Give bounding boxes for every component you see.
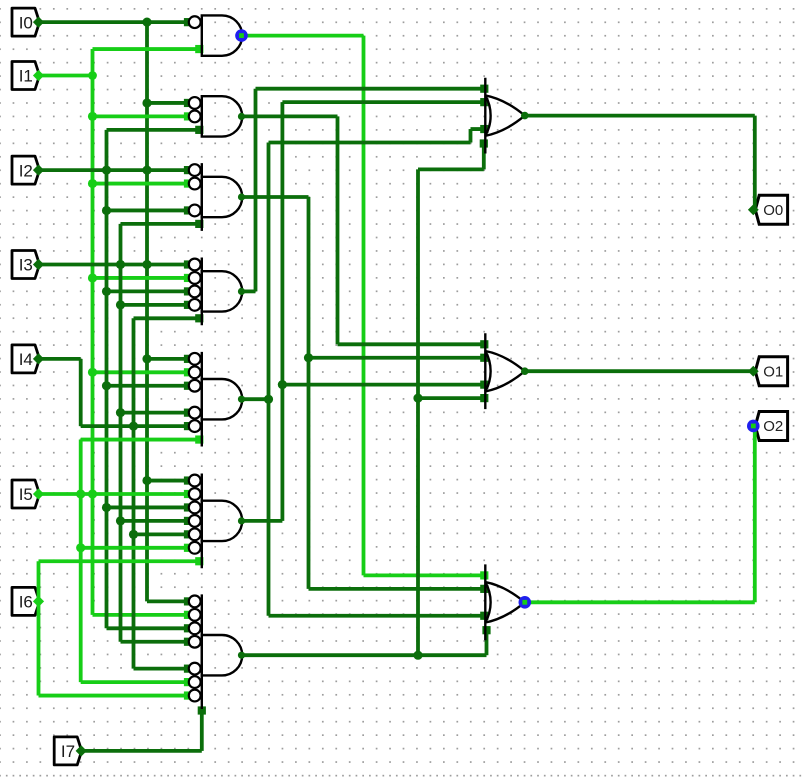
AND gate G4: [202, 258, 242, 326]
wire OR2 output to O1: [525, 369, 754, 373]
output pin O1: [755, 357, 787, 386]
junction G7 output: [413, 651, 422, 660]
inverter bubble G1 input: [189, 16, 201, 28]
wire I2 branch to gate4: [107, 289, 189, 293]
G2 output dot: [238, 113, 245, 120]
wire G4 output horizontal: [242, 289, 256, 293]
wire I2 branch to gate5: [107, 384, 189, 388]
svg-text:I1: I1: [19, 67, 33, 86]
wire G6 to OR2 input3: [282, 383, 487, 387]
wire I5 vertical bus: [79, 440, 83, 683]
wire I6 to gate7 seventh input: [39, 694, 189, 698]
pad: [184, 503, 192, 511]
wire I2 pin to gate3 inverted input: [39, 168, 189, 172]
wire I1 branch to gate3: [93, 182, 189, 186]
wire I3 branch to gate7: [121, 640, 189, 644]
junction I2 bus / pin wire: [102, 166, 111, 175]
inverter bubble G4 input: [189, 286, 201, 298]
wire G2 to OR2 input1: [338, 342, 488, 346]
junction G3 to OR2: [304, 353, 313, 362]
wire I0 pin to gate1 inverted input: [39, 20, 189, 24]
pin I0 connection point: [33, 17, 44, 28]
pin I1 connection point: [33, 70, 44, 81]
inverter bubble G7 input: [189, 636, 201, 648]
junction I3 gate4 branch: [116, 300, 125, 309]
pad: [184, 18, 192, 26]
junction I1 bus at I5 row: [88, 489, 97, 498]
wire I4 to gate5 fifth input: [81, 424, 188, 428]
pad: [184, 624, 192, 632]
input pin I2: [12, 156, 40, 184]
pad: [184, 301, 192, 309]
inverter bubble G5 input: [189, 420, 201, 432]
pad: [480, 571, 488, 579]
wire G5 output horizontal: [242, 397, 269, 401]
junction I2 gate4 branch: [102, 287, 111, 296]
pin I5 connection point: [33, 488, 44, 499]
wire I4 branch to gate6: [134, 532, 189, 536]
pad: [195, 126, 203, 134]
wire I1 pin to bus: [39, 74, 93, 78]
pad: [184, 490, 192, 498]
wire G5 to OR1 input3: [471, 127, 488, 131]
output pin O2: [755, 411, 787, 440]
junction I3 gate6 branch: [116, 516, 125, 525]
pad: [480, 381, 488, 389]
pad: [195, 314, 203, 322]
junction I0 gate6 branch: [142, 476, 151, 485]
pad: [184, 611, 192, 619]
pin I3 connection point: [33, 259, 44, 270]
wire I1 branch to gate1 plain input: [93, 47, 202, 51]
wire G1 to OR3 input1: [364, 574, 488, 578]
wire I5 pin to gate6 inverted input: [39, 492, 189, 496]
pin O0 connection point: [748, 204, 759, 215]
G7 output dot: [238, 652, 245, 659]
junction I2 gate6 branch: [102, 503, 111, 512]
input pin I1: [12, 62, 40, 90]
junction I0 bus / pin wire: [142, 18, 151, 27]
svg-text:I7: I7: [61, 742, 75, 761]
wire G5 jog up: [469, 129, 473, 142]
junction I5 bus / pin wire: [76, 489, 85, 498]
input pin I6: [12, 587, 40, 615]
svg-text:I2: I2: [19, 161, 33, 180]
wire I2 branch to gate6: [107, 506, 189, 510]
wire I0 branch to gate2: [147, 101, 188, 105]
junction I0 bus at I2 row: [142, 166, 151, 175]
wire I6 vertical: [37, 561, 41, 695]
pad: [184, 691, 192, 699]
inverter bubble G5 input: [189, 380, 201, 392]
inverter bubble G7 input: [189, 596, 201, 608]
wire I2 branch to gate7: [107, 626, 189, 630]
wire I3 vertical bus: [119, 224, 123, 642]
pad: [184, 112, 192, 120]
wire I0 branch to gate5: [147, 357, 188, 361]
wire OR1 output vertical: [753, 116, 757, 210]
OR gate U2 (middle): [485, 333, 525, 409]
inverter bubble G3 input: [189, 164, 201, 176]
inverter bubble G7 input: [189, 622, 201, 634]
inverter bubble G4 input: [189, 299, 201, 311]
G6 output dot: [238, 517, 245, 524]
pad: [482, 626, 490, 634]
inverter bubble G7 input: [189, 609, 201, 621]
junction G7 to OR2: [413, 394, 422, 403]
wire I5 branch to gate5 plain input: [81, 438, 202, 442]
inverter bubble G2 input: [189, 97, 201, 109]
pad: [184, 530, 192, 538]
wire G3 to OR3 input2: [309, 587, 488, 591]
wire G5 upper horizontal: [269, 141, 471, 145]
junction G6 to OR2: [278, 380, 287, 389]
junction I0 gate2 branch: [142, 98, 151, 107]
junction I4 bus: [129, 422, 138, 431]
pad: [184, 544, 192, 552]
wire G5 to OR3 input3: [269, 614, 488, 618]
inverter bubble G4 input: [189, 272, 201, 284]
pad: [184, 287, 192, 295]
wire G5 vertical: [267, 143, 271, 616]
pad: [184, 665, 192, 673]
G3 output dot: [238, 193, 245, 200]
wire OR3 output horizontal: [525, 600, 755, 604]
output pin O0: [755, 195, 787, 224]
pin I2 connection point: [33, 165, 44, 176]
pin O1 connection point: [748, 366, 759, 377]
wire I2 vertical bus: [105, 130, 109, 628]
svg-text:I0: I0: [19, 13, 33, 32]
inverter bubble G3 input: [189, 205, 201, 217]
wire OR3 output vertical to O2: [753, 426, 757, 602]
svg-text:I5: I5: [19, 485, 33, 504]
inverter bubble G7 input: [189, 676, 201, 688]
wire G1 output horizontal: [242, 34, 364, 38]
wire G6 to OR1 input2: [282, 100, 487, 104]
wire I1 branch to gate2: [93, 115, 189, 119]
inverter bubble G7 input: [189, 663, 201, 675]
blue ring O2 input: [747, 420, 760, 433]
wire I1 branch to gate7: [93, 613, 189, 617]
inverter bubble G6 input: [189, 475, 201, 487]
AND gate G5: [202, 352, 242, 447]
wire G7 long vertical: [416, 169, 420, 655]
AND gate G7: [202, 594, 242, 709]
pad: [184, 274, 192, 282]
pad: [184, 179, 192, 187]
junction I4 gate6 branch: [129, 530, 138, 539]
pad: [184, 638, 192, 646]
AND gate G6: [202, 474, 242, 569]
pad: [184, 422, 192, 430]
input pin I7: [54, 737, 81, 765]
inverter bubble G6 input: [189, 502, 201, 514]
svg-text:I6: I6: [19, 593, 33, 612]
pin I6 connection point: [33, 596, 44, 607]
inverter bubble G3 input: [189, 178, 201, 190]
OR gate U1 (top): [485, 78, 525, 154]
pad: [184, 517, 192, 525]
AND gate G3: [202, 163, 242, 231]
wire I4 descent: [79, 359, 83, 426]
wire I5 branch to gate6 sixth input: [81, 546, 188, 550]
wire I2 branch to gate3 third input: [107, 209, 189, 213]
pad: [184, 382, 192, 390]
wire G2 output horizontal: [242, 115, 338, 119]
wire G7 to OR2 input4: [418, 396, 487, 400]
junction I5 gate6 branch: [76, 543, 85, 552]
pad: [480, 340, 488, 348]
svg-text:O0: O0: [763, 202, 783, 219]
wire G3 to OR2 input2: [309, 356, 488, 360]
pad: [184, 206, 192, 214]
pad: [184, 166, 192, 174]
inverter bubble G5 input: [189, 366, 201, 378]
pad: [184, 409, 192, 417]
wire I6 to gate6 plain input: [39, 559, 202, 563]
inverter bubble G5 input: [189, 353, 201, 365]
junction I2 gate5 branch: [102, 381, 111, 390]
pad: [184, 260, 192, 268]
junction I0 gate5 branch: [142, 354, 151, 363]
wire I0 vertical bus: [145, 22, 149, 601]
wire G6 output horizontal: [242, 519, 282, 523]
pad: [480, 394, 488, 402]
wire OR1 output horizontal: [525, 114, 755, 118]
wire I3 branch to gate6: [121, 519, 189, 523]
wire I4 vertical bus: [132, 318, 136, 668]
pad: [480, 125, 488, 133]
pad: [480, 85, 488, 93]
junction I0 bus at I3 row: [142, 260, 151, 269]
wire I4 pin horizontal: [39, 357, 81, 361]
junction I1 gate3 branch: [88, 179, 97, 188]
wire I1 vertical bus: [91, 49, 95, 615]
pad: [480, 612, 488, 620]
junction I1 bus / pin wire: [88, 71, 97, 80]
pad: [195, 435, 203, 443]
wire G3 vertical: [307, 197, 311, 589]
wire G6 vertical: [280, 102, 284, 521]
pad: [184, 368, 192, 376]
input pin I0: [12, 8, 40, 36]
pad: [184, 678, 192, 686]
junction I3 gate5 branch: [116, 408, 125, 417]
OR1 output dot: [521, 112, 529, 120]
wire G7 riser to OR3 input4: [485, 629, 489, 655]
pad: [184, 355, 192, 363]
junction I3 bus / pin wire: [116, 260, 125, 269]
pin I7 connection point: [76, 745, 87, 756]
svg-text:O2: O2: [763, 418, 783, 435]
wire I3 branch to gate4 fourth input: [121, 303, 189, 307]
wire G4 vertical: [254, 89, 258, 292]
wire I4 branch to gate7: [134, 667, 189, 671]
G4 output dot: [238, 288, 245, 295]
blue ring OR3 output: [519, 596, 532, 609]
wire I0 branch to gate7: [147, 600, 188, 604]
input pin I4: [12, 345, 40, 373]
wire I3 pin to gate4 inverted input: [39, 263, 189, 267]
AND gate G2: [202, 96, 242, 136]
wire G4 to OR1 input1: [256, 87, 488, 91]
pad: [195, 220, 203, 228]
wire I4 branch to gate4 plain input: [134, 316, 202, 320]
G5 output dot: [238, 396, 245, 403]
wire I1 branch to gate4: [93, 276, 189, 280]
junction I1 gate2 branch: [88, 112, 97, 121]
pad: [480, 585, 488, 593]
input pin I3: [12, 251, 40, 279]
wire I5 branch to gate7: [81, 680, 188, 684]
wire G7 upper horizontal: [418, 167, 484, 171]
pad: [480, 354, 488, 362]
inverter bubble G2 input: [189, 111, 201, 123]
input pin I5: [12, 480, 40, 508]
wire G7 riser to OR1 input4: [482, 143, 486, 170]
pad: [184, 597, 192, 605]
wire I2 branch to gate2 plain input: [107, 128, 202, 132]
junction I2 gate3 branch: [102, 206, 111, 215]
pad: [195, 45, 203, 53]
wire G2 vertical: [336, 116, 340, 344]
svg-text:I4: I4: [19, 350, 33, 369]
pad: [184, 99, 192, 107]
inverter bubble G6 input: [189, 542, 201, 554]
junction I1 gate5 branch: [88, 368, 97, 377]
pin I4 connection point: [33, 353, 44, 364]
wire I7 pin horizontal: [81, 749, 202, 753]
inverter bubble G4 input: [189, 259, 201, 271]
pad: [480, 98, 488, 106]
OR gate U3 (bottom): [485, 564, 525, 640]
inverter bubble G6 input: [189, 528, 201, 540]
wire G1 vertical: [362, 36, 366, 576]
pad: [480, 139, 488, 147]
wire I3 branch to gate5: [121, 411, 189, 415]
junction I1 gate4 branch: [88, 273, 97, 282]
wire G3 output horizontal: [242, 195, 309, 199]
inverter bubble G6 input: [189, 515, 201, 527]
wire I3 branch to gate3 plain input: [121, 222, 202, 226]
wire G7 output horizontal: [242, 653, 487, 657]
blue ring G1 output: [235, 29, 248, 42]
svg-text:O1: O1: [763, 363, 783, 380]
svg-text:I3: I3: [19, 256, 33, 275]
OR2 output dot: [521, 367, 529, 375]
wire I7 riser to gate7 plain input: [200, 709, 204, 751]
inverter bubble G5 input: [189, 407, 201, 419]
wire I0 branch to gate6: [147, 479, 188, 483]
inverter bubble G7 input: [189, 690, 201, 702]
wire I1 branch to gate5: [93, 370, 189, 374]
junction G5 output: [264, 395, 273, 404]
pad: [198, 706, 206, 714]
pad: [184, 476, 192, 484]
pad: [195, 557, 203, 565]
inverter bubble G6 input: [189, 488, 201, 500]
AND gate G1: [202, 15, 242, 55]
